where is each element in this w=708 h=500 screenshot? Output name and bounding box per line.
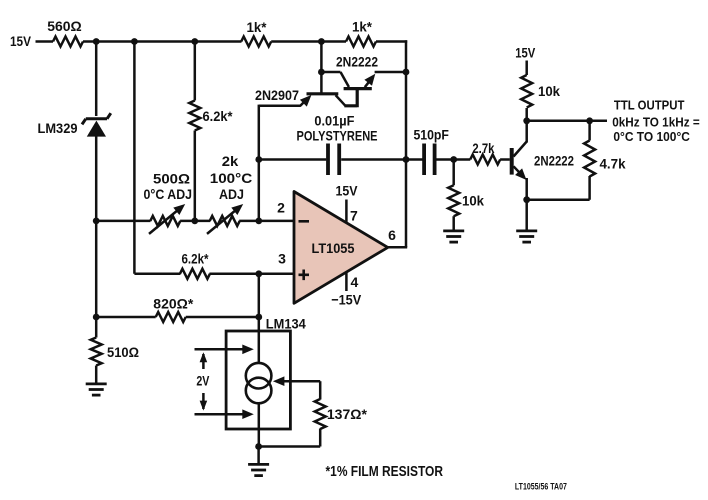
node 15V supply label <box>10 33 32 49</box>
op-amp minus input sign <box>299 220 310 223</box>
transistor Q2 2N2222 collector <box>341 72 349 87</box>
label LM134 <box>266 315 306 331</box>
junction top rail / LM329 branch <box>93 38 100 45</box>
svg-text:4.7k: 4.7k <box>600 156 626 172</box>
svg-text:2V: 2V <box>196 373 210 389</box>
junction 820 row / LM134 vertical <box>255 314 262 321</box>
svg-text:510pF: 510pF <box>413 126 449 142</box>
transistor Q2 2N2222 emitter <box>364 74 375 88</box>
junction V1 / 820 row / 510 branch <box>93 314 100 321</box>
junction output node / 4.7k <box>586 117 593 124</box>
wire rail to Q1 base node <box>320 40 323 93</box>
potentiometer 500&#937; 0&#176;C ADJ zigzag <box>150 216 180 226</box>
resistor R 6.2k* vertical <box>189 101 200 131</box>
wire 820 node to 510 <box>95 317 98 338</box>
svg-text:2N2907: 2N2907 <box>255 87 299 103</box>
label 15V collector supply <box>515 45 536 61</box>
wire top rail seg C <box>376 40 407 43</box>
op-amp U1 LT1055 body <box>294 192 388 304</box>
wire 10k top to 15V <box>525 61 528 76</box>
wire Q2 collector node right <box>321 71 340 74</box>
wire 10k mid lower <box>452 216 455 231</box>
junction V1 / pot row <box>93 218 100 225</box>
wire emitter node to 4.7k bottom <box>527 176 590 200</box>
svg-text:LM329: LM329 <box>38 120 78 136</box>
wire 510 to ground <box>95 366 98 385</box>
resistor R 4.7k <box>584 141 595 177</box>
svg-text:1k*: 1k* <box>247 19 268 35</box>
svg-text:10k: 10k <box>538 83 560 99</box>
svg-text:510Ω: 510Ω <box>107 344 139 360</box>
wire Q1 collector to Q2 base <box>344 89 357 107</box>
resistor 560&#937; <box>53 37 83 47</box>
svg-text:−15V: −15V <box>331 292 362 308</box>
wire output vert to 510pF <box>406 158 423 161</box>
wire 10k mid upper <box>452 160 455 186</box>
label LM329 <box>38 120 78 136</box>
potentiometer 500&#937; arrow <box>149 204 185 234</box>
wire pot row seg C <box>239 220 295 223</box>
label 2V <box>196 373 210 389</box>
label 4.7k <box>600 156 626 172</box>
resistor R 6.2k* horizontal <box>180 269 210 279</box>
arrow into LM134 top <box>195 345 254 355</box>
transistor Q3 collector <box>514 108 527 157</box>
junction pot row / feedback vertical <box>255 218 262 225</box>
label 0kHz TO 1kHz = <box>612 115 700 129</box>
wire V1 lower (zener to 820 node) <box>95 135 98 318</box>
label 2N2222 output <box>534 152 574 168</box>
label 510&#937; <box>107 344 139 360</box>
wire 2.7k to Q3 base <box>500 158 510 161</box>
junction top rail / 6.2k vertical branch <box>191 38 198 45</box>
wire feedback vertical <box>258 105 261 221</box>
svg-text:LT1055: LT1055 <box>312 240 355 256</box>
ground below Q3 emitter <box>516 231 537 242</box>
wire pin3 row left <box>134 273 180 276</box>
wire 0.01uF right <box>341 158 407 161</box>
svg-text:820Ω*: 820Ω* <box>153 295 194 311</box>
svg-text:15V: 15V <box>515 45 536 61</box>
transistor Q3 emitter <box>514 166 527 180</box>
capacitor C 510pF plates <box>424 144 435 176</box>
svg-text:2k: 2k <box>222 153 239 169</box>
pin number 3 <box>278 251 286 267</box>
svg-text:POLYSTYRENE: POLYSTYRENE <box>297 128 378 144</box>
figure id LT1055/56 TA07 <box>515 482 567 493</box>
svg-text:2N2222: 2N2222 <box>336 54 378 70</box>
pin number 4 <box>351 274 359 290</box>
svg-text:TTL OUTPUT: TTL OUTPUT <box>614 98 685 112</box>
wire node to 2.7k <box>454 158 471 161</box>
pin number 6 <box>388 227 396 243</box>
label 2k <box>222 153 239 169</box>
label 1k* left <box>247 19 268 35</box>
junction top rail / transistor pair branch <box>318 38 325 45</box>
wire top rail seg B <box>271 40 346 43</box>
label 2N2222 pair <box>336 54 378 70</box>
wire LM134 ground stem <box>257 447 260 465</box>
junction Q3 emitter node <box>523 196 530 203</box>
svg-text:10k: 10k <box>462 193 484 209</box>
arrow into LM134 current source <box>273 376 320 386</box>
wire pin3 node down to LM134 <box>258 274 261 447</box>
wire output vertical <box>405 40 408 247</box>
wire pin3 row right <box>209 273 295 276</box>
pin number 2 <box>277 199 285 215</box>
wire pot row seg B <box>180 220 210 223</box>
capacitor C 0.01uF plates <box>328 144 339 176</box>
junction output vertical / 2N2222 emitter <box>403 69 410 76</box>
wire 820 row left <box>96 316 156 319</box>
resistor R 10k top <box>521 75 532 108</box>
wire Q2 emitter to output vertical <box>375 71 406 74</box>
LM134 box <box>226 331 290 429</box>
label 6.2k* vertical <box>203 108 233 124</box>
label 137&#937;* <box>327 406 368 422</box>
wire V1 upper (rail to zener) <box>95 40 98 116</box>
label 2.7k <box>472 140 494 156</box>
junction output vertical / 510pF branch <box>403 156 410 163</box>
svg-text:6.2k*: 6.2k* <box>203 108 233 124</box>
svg-text:0.01µF: 0.01µF <box>314 112 354 128</box>
svg-text:2: 2 <box>277 199 285 215</box>
ground below 10k mid <box>443 231 464 242</box>
label 2N2907 <box>255 87 299 103</box>
label POLYSTYRENE <box>297 128 378 144</box>
svg-text:LT1055/56 TA07: LT1055/56 TA07 <box>515 482 567 493</box>
junction top rail / 6.2k branch <box>131 38 138 45</box>
label TTL OUTPUT <box>614 98 685 112</box>
junction LM134 ground node <box>255 443 262 450</box>
svg-text:6.2k*: 6.2k* <box>182 251 209 267</box>
svg-text:560Ω: 560Ω <box>47 18 82 34</box>
svg-text:500Ω: 500Ω <box>153 170 190 186</box>
label 1k* right <box>352 19 373 35</box>
transistor Q1 2N2907 emitter arrow <box>300 95 312 107</box>
wire 15V to R 560 <box>36 40 54 43</box>
label 6.2k* horizontal <box>182 251 209 267</box>
label 820&#937;* <box>153 295 194 311</box>
current source LM134 circles fill <box>246 363 272 403</box>
wire op-amp output <box>387 246 407 249</box>
label 0C TO 100C <box>613 130 690 144</box>
svg-text:3: 3 <box>278 251 286 267</box>
junction Q1 base / Q2 collector node <box>318 69 325 76</box>
zener diode LM329 anode triangle <box>87 121 106 137</box>
current source LM134 upper circle <box>246 363 272 389</box>
transistor Q1 2N2907 collector <box>336 95 346 106</box>
svg-text:100°C: 100°C <box>210 170 253 186</box>
label 510pF <box>413 126 449 142</box>
svg-text:2.7k: 2.7k <box>472 140 494 156</box>
potentiometer 2k 100&#176;C ADJ zigzag <box>210 216 240 226</box>
resistor R 1k* right <box>346 37 376 47</box>
svg-text:LM134: LM134 <box>266 315 306 331</box>
label ADJ <box>219 186 244 202</box>
resistor R 2.7k <box>470 155 500 165</box>
junction Q3 collector node <box>523 117 530 124</box>
label 100&#176;C <box>210 170 253 186</box>
op-amp pin4 supply line <box>345 272 348 291</box>
label -15V op-amp supply <box>331 292 362 308</box>
svg-text:ADJ: ADJ <box>219 186 244 202</box>
zener diode LM329 cathode bar <box>82 113 111 124</box>
transistor Q2 2N2222 base bar <box>344 87 372 90</box>
junction feedback vertical / 0.01uF branch <box>255 156 262 163</box>
2V measurement arrow upper <box>200 352 208 369</box>
label 560&#937; <box>47 18 82 34</box>
note 1% film resistor <box>326 463 444 480</box>
ground below 510&#937; <box>86 384 107 395</box>
wire Q1 emitter left to feedback vertical <box>259 105 301 108</box>
ground below LM134 <box>248 464 269 475</box>
resistor R 10k mid <box>448 185 459 216</box>
op-amp plus input sign <box>299 270 310 281</box>
svg-text:0°C TO 100°C: 0°C TO 100°C <box>613 130 690 144</box>
svg-text:15V: 15V <box>336 183 359 199</box>
label 10k mid <box>462 193 484 209</box>
label 500&#937; <box>153 170 190 186</box>
wire pot row seg A <box>96 220 150 223</box>
wire V3 upper <box>194 40 197 100</box>
resistor R 510&#937; <box>91 338 102 366</box>
junction pin3 row / LM134 vertical <box>255 270 262 277</box>
svg-text:7: 7 <box>350 207 358 223</box>
svg-text:2N2222: 2N2222 <box>534 152 574 168</box>
wire V3 lower <box>194 131 197 221</box>
label 15V op-amp supply <box>336 183 359 199</box>
wire V2 rail down to pin3 row <box>133 40 136 273</box>
wire 510pF to 10k node <box>437 158 454 161</box>
label LT1055 <box>312 240 355 256</box>
svg-text:15V: 15V <box>10 33 32 49</box>
wire 4.7k top <box>588 121 591 141</box>
resistor R 820&#937;* <box>156 312 186 322</box>
label 10k top <box>538 83 560 99</box>
svg-text:0°C ADJ: 0°C ADJ <box>144 186 193 202</box>
svg-text:6: 6 <box>388 227 396 243</box>
arrow into LM134 bottom <box>195 409 254 419</box>
svg-text:*1% FILM RESISTOR: *1% FILM RESISTOR <box>326 463 444 480</box>
junction pot row / V3 <box>191 218 198 225</box>
2V measurement arrow lower <box>200 393 208 411</box>
label 0.01uF <box>314 112 354 128</box>
svg-text:0kHz TO 1kHz =: 0kHz TO 1kHz = <box>612 115 700 129</box>
op-amp pin7 supply line <box>345 200 348 223</box>
wire top rail seg A <box>83 40 242 43</box>
resistor R 1k* left <box>241 37 271 47</box>
svg-text:1k*: 1k* <box>352 19 373 35</box>
potentiometer 2k arrow <box>207 204 243 234</box>
resistor R 137&#937;* <box>315 399 326 429</box>
transistor Q3 2N2222 base bar <box>510 148 514 175</box>
wire Q3 emitter down <box>525 178 528 231</box>
current source LM134 lower circle <box>246 378 272 404</box>
junction 510pF / 10k / 2.7k node <box>450 156 457 163</box>
wire 820 row right <box>186 316 259 319</box>
wire 137 upper <box>319 381 322 399</box>
pin number 7 <box>350 207 358 223</box>
transistor Q1 2N2907 base bar <box>307 92 339 95</box>
svg-text:137Ω*: 137Ω* <box>327 406 368 422</box>
wire 0.01uF left <box>259 158 327 161</box>
wire collector node to output <box>527 120 607 123</box>
svg-text:4: 4 <box>351 274 359 290</box>
wire 137 lower <box>259 429 321 447</box>
label 0&#176;C ADJ <box>144 186 193 202</box>
